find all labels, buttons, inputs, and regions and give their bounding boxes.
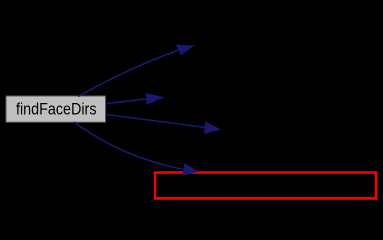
edge 3: findFaceDirs -> lower-middle node (wire) [107, 115, 220, 134]
svg-text:findFaceDirs: findFaceDirs [16, 99, 97, 118]
node findFaceDirs [6, 96, 106, 122]
red node (truncated) [154, 171, 377, 199]
edge 1: findFaceDirs -> top node (wire) [78, 45, 193, 96]
edge 4: findFaceDirs -> red node (wire) [74, 122, 197, 175]
edge 2: findFaceDirs -> middle node (wire) [107, 94, 163, 105]
